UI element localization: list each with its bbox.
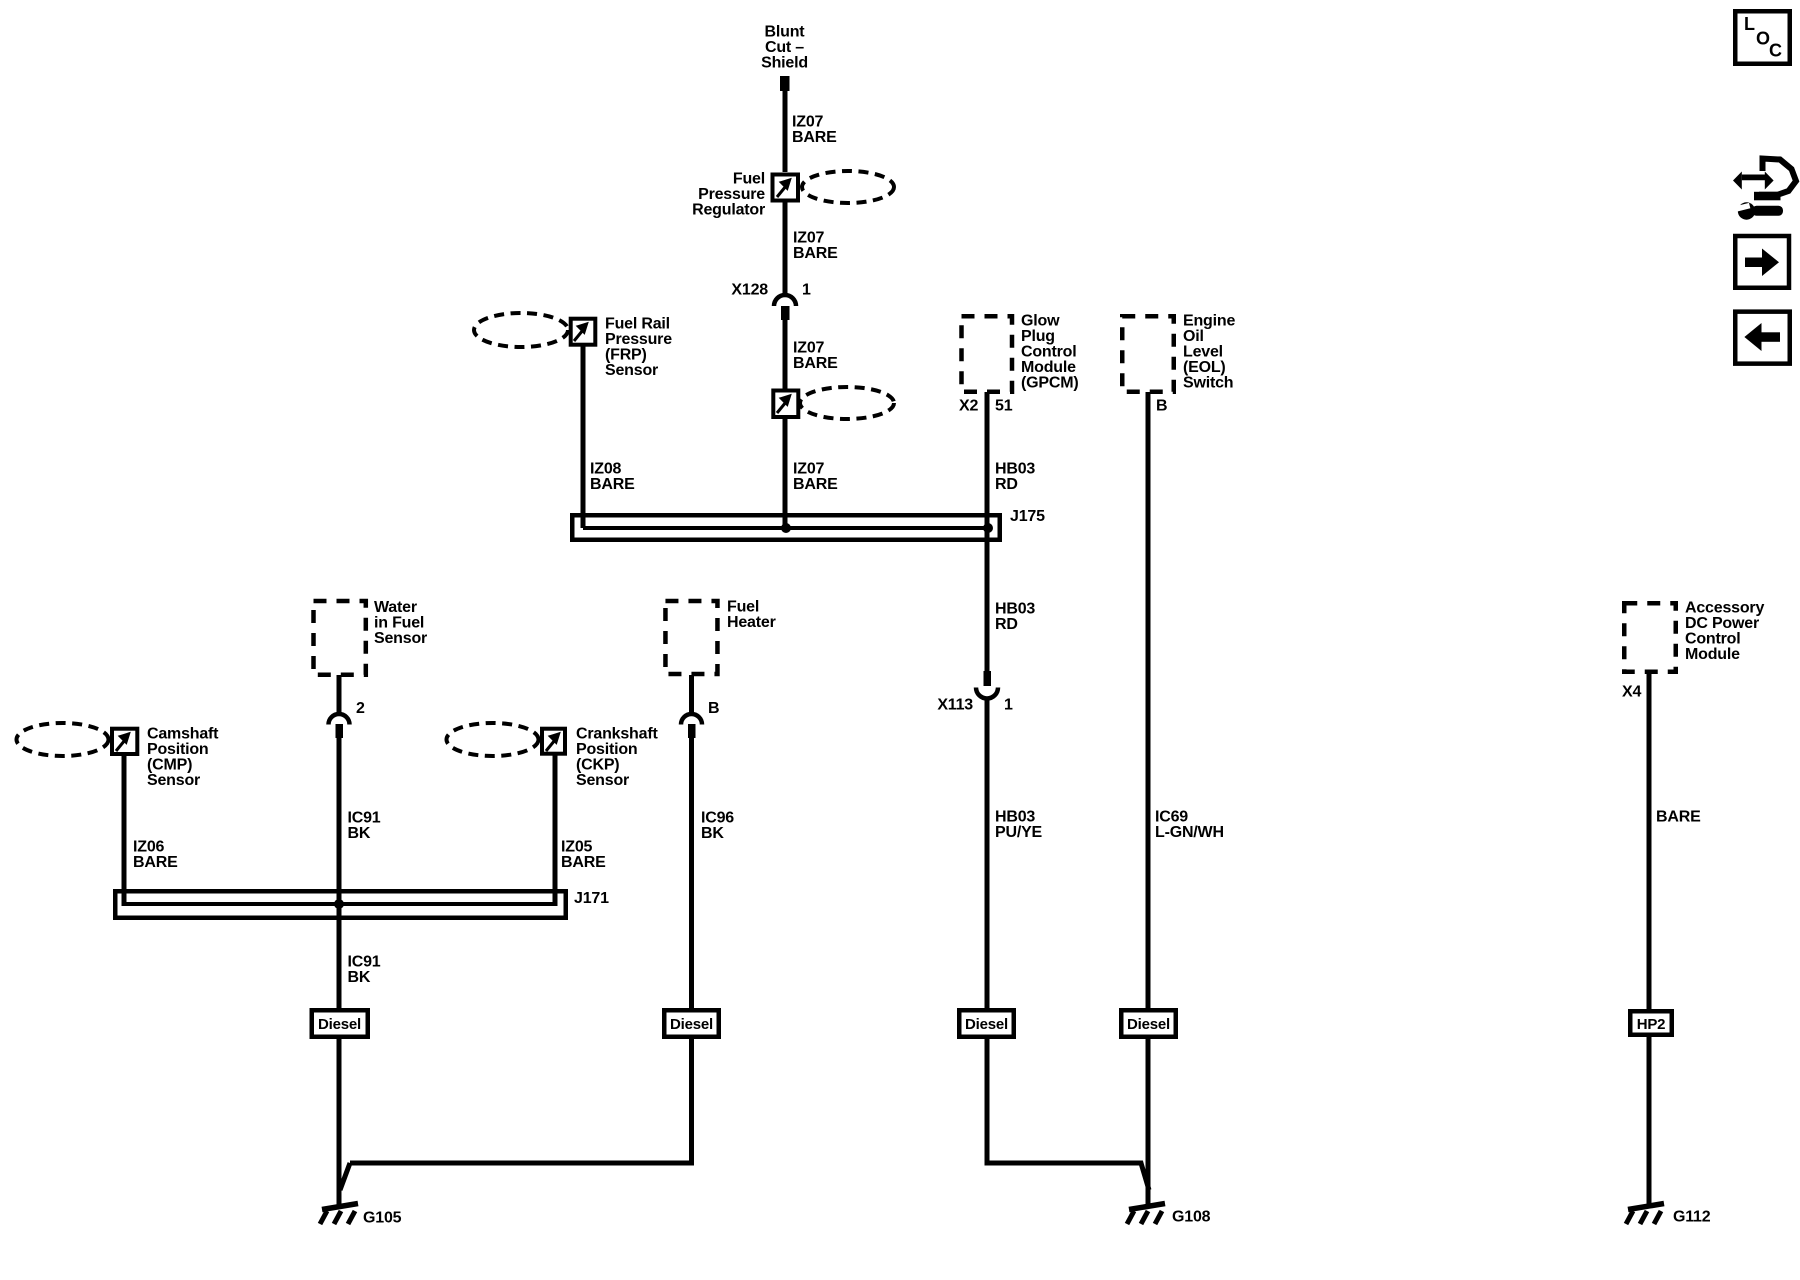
svg-text:X113: X113 xyxy=(937,697,973,714)
svg-text:PU/YE: PU/YE xyxy=(995,824,1043,841)
svg-text:BARE: BARE xyxy=(792,129,837,146)
svg-text:Diesel: Diesel xyxy=(1127,1016,1170,1033)
svg-text:J175: J175 xyxy=(1010,508,1045,525)
svg-text:BARE: BARE xyxy=(561,854,606,871)
svg-text:Plug: Plug xyxy=(1021,328,1055,345)
svg-text:J171: J171 xyxy=(574,890,609,907)
svg-text:IZ07: IZ07 xyxy=(793,340,825,357)
svg-text:Position: Position xyxy=(576,741,638,758)
svg-text:Sensor: Sensor xyxy=(147,772,200,789)
svg-text:IZ08: IZ08 xyxy=(590,461,622,478)
svg-text:IC91: IC91 xyxy=(348,954,381,971)
svg-text:RD: RD xyxy=(995,616,1018,633)
svg-text:Diesel: Diesel xyxy=(965,1016,1008,1033)
svg-text:Sensor: Sensor xyxy=(576,772,629,789)
svg-text:Pressure: Pressure xyxy=(698,186,765,203)
svg-text:L: L xyxy=(1744,14,1755,34)
svg-text:Pressure: Pressure xyxy=(605,331,672,348)
svg-text:Cut –: Cut – xyxy=(765,39,804,56)
svg-text:Shield: Shield xyxy=(761,55,808,72)
svg-text:Oil: Oil xyxy=(1183,328,1204,345)
svg-text:Level: Level xyxy=(1183,344,1223,361)
svg-text:Crankshaft: Crankshaft xyxy=(576,726,658,743)
svg-text:Water: Water xyxy=(374,599,417,616)
svg-text:(CMP): (CMP) xyxy=(147,757,192,774)
svg-text:IC91: IC91 xyxy=(348,810,381,827)
svg-text:IZ07: IZ07 xyxy=(793,461,825,478)
svg-text:Control: Control xyxy=(1021,344,1076,361)
svg-text:G108: G108 xyxy=(1172,1209,1211,1226)
svg-text:1: 1 xyxy=(1004,697,1013,714)
svg-text:2: 2 xyxy=(356,700,365,717)
svg-text:Diesel: Diesel xyxy=(318,1016,361,1033)
svg-text:Glow: Glow xyxy=(1021,313,1060,330)
svg-text:HB03: HB03 xyxy=(995,601,1035,618)
svg-text:L-GN/WH: L-GN/WH xyxy=(1155,824,1224,841)
svg-text:IC69: IC69 xyxy=(1155,809,1188,826)
svg-text:Position: Position xyxy=(147,741,209,758)
svg-text:Heater: Heater xyxy=(727,614,776,631)
svg-text:Module: Module xyxy=(1021,359,1076,376)
svg-text:Control: Control xyxy=(1685,631,1740,648)
svg-text:Regulator: Regulator xyxy=(692,202,765,219)
svg-text:X128: X128 xyxy=(731,282,768,299)
svg-text:B: B xyxy=(708,700,719,717)
svg-text:BARE: BARE xyxy=(793,355,838,372)
svg-text:Switch: Switch xyxy=(1183,375,1233,392)
svg-text:Diesel: Diesel xyxy=(670,1016,713,1033)
svg-text:BARE: BARE xyxy=(590,476,635,493)
svg-text:C: C xyxy=(1769,41,1782,61)
svg-text:RD: RD xyxy=(995,476,1018,493)
svg-text:BARE: BARE xyxy=(793,476,838,493)
svg-text:Engine: Engine xyxy=(1183,313,1235,330)
svg-text:Fuel: Fuel xyxy=(727,599,759,616)
svg-text:IZ05: IZ05 xyxy=(561,839,593,856)
svg-text:Module: Module xyxy=(1685,646,1740,663)
svg-text:HB03: HB03 xyxy=(995,809,1035,826)
svg-text:(GPCM): (GPCM) xyxy=(1021,375,1078,392)
svg-text:IZ06: IZ06 xyxy=(133,839,165,856)
svg-text:1: 1 xyxy=(802,282,811,299)
svg-text:Accessory: Accessory xyxy=(1685,600,1764,617)
svg-text:(CKP): (CKP) xyxy=(576,757,619,774)
svg-text:in Fuel: in Fuel xyxy=(374,615,424,632)
svg-text:X4: X4 xyxy=(1622,684,1641,701)
svg-text:G112: G112 xyxy=(1673,1209,1711,1226)
svg-text:BK: BK xyxy=(348,825,371,842)
svg-text:HP2: HP2 xyxy=(1637,1016,1666,1033)
svg-text:BK: BK xyxy=(701,825,724,842)
svg-text:BARE: BARE xyxy=(1656,809,1701,826)
svg-text:Blunt: Blunt xyxy=(765,24,806,41)
svg-text:IZ07: IZ07 xyxy=(793,230,825,247)
svg-text:Fuel Rail: Fuel Rail xyxy=(605,316,670,333)
svg-text:Sensor: Sensor xyxy=(605,362,658,379)
svg-text:(EOL): (EOL) xyxy=(1183,359,1226,376)
svg-text:B: B xyxy=(1156,398,1167,415)
svg-text:O: O xyxy=(1756,29,1770,49)
svg-text:BARE: BARE xyxy=(793,245,838,262)
svg-text:Sensor: Sensor xyxy=(374,630,427,647)
svg-text:BK: BK xyxy=(348,969,371,986)
svg-text:IZ07: IZ07 xyxy=(792,114,824,131)
svg-text:G105: G105 xyxy=(363,1210,402,1227)
svg-text:DC Power: DC Power xyxy=(1685,615,1759,632)
svg-text:Camshaft: Camshaft xyxy=(147,726,219,743)
svg-text:HB03: HB03 xyxy=(995,461,1035,478)
svg-text:51: 51 xyxy=(995,398,1013,415)
svg-text:Fuel: Fuel xyxy=(733,171,765,188)
svg-text:IC96: IC96 xyxy=(701,810,734,827)
svg-text:X2: X2 xyxy=(959,398,978,415)
svg-text:BARE: BARE xyxy=(133,854,178,871)
svg-text:(FRP): (FRP) xyxy=(605,347,647,364)
